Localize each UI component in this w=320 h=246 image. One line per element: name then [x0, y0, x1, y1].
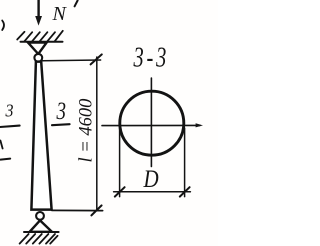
right section line	[52, 124, 70, 125]
top support hatch line	[21, 41, 63, 43]
svg-text:3: 3	[5, 100, 14, 120]
force arrow N	[35, 0, 42, 26]
column (tapered bar)	[31, 62, 51, 210]
svg-text:3: 3	[56, 96, 66, 124]
D extension line right	[184, 128, 186, 197]
svg-text:N: N	[52, 3, 68, 25]
svg-text:D: D	[143, 165, 159, 193]
centerline arrowhead	[196, 123, 203, 127]
bottom support base line	[24, 231, 59, 233]
horizontal centerline	[102, 124, 200, 126]
top dimension tick	[91, 54, 102, 64]
bottom hinge circle	[36, 212, 44, 220]
prime tick	[75, 1, 78, 7]
bottom dimension tick	[91, 205, 101, 215]
stray mark at left edge (cut-off)	[0, 141, 2, 149]
svg-text:l = 4600: l = 4600	[77, 98, 97, 163]
D dimension tick left	[115, 187, 125, 196]
bottom pin triangle	[30, 220, 52, 231]
bottom support hatch strokes	[20, 234, 58, 244]
top support hatch strokes	[17, 31, 63, 41]
left section line	[0, 126, 20, 127]
vertical centerline	[150, 78, 152, 167]
D dimension line	[114, 191, 191, 193]
top dimension extension line	[43, 59, 101, 62]
vertical dimension line l	[96, 57, 98, 210]
D dimension tick right	[180, 187, 190, 196]
top pin triangle	[28, 43, 47, 54]
figure label fragment ")"	[2, 21, 4, 31]
bottom dimension extension line	[52, 209, 103, 211]
top hinge circle	[34, 54, 42, 62]
svg-text:3-3: 3-3	[133, 42, 167, 73]
section circle D	[120, 91, 184, 155]
D extension line left	[119, 128, 121, 197]
